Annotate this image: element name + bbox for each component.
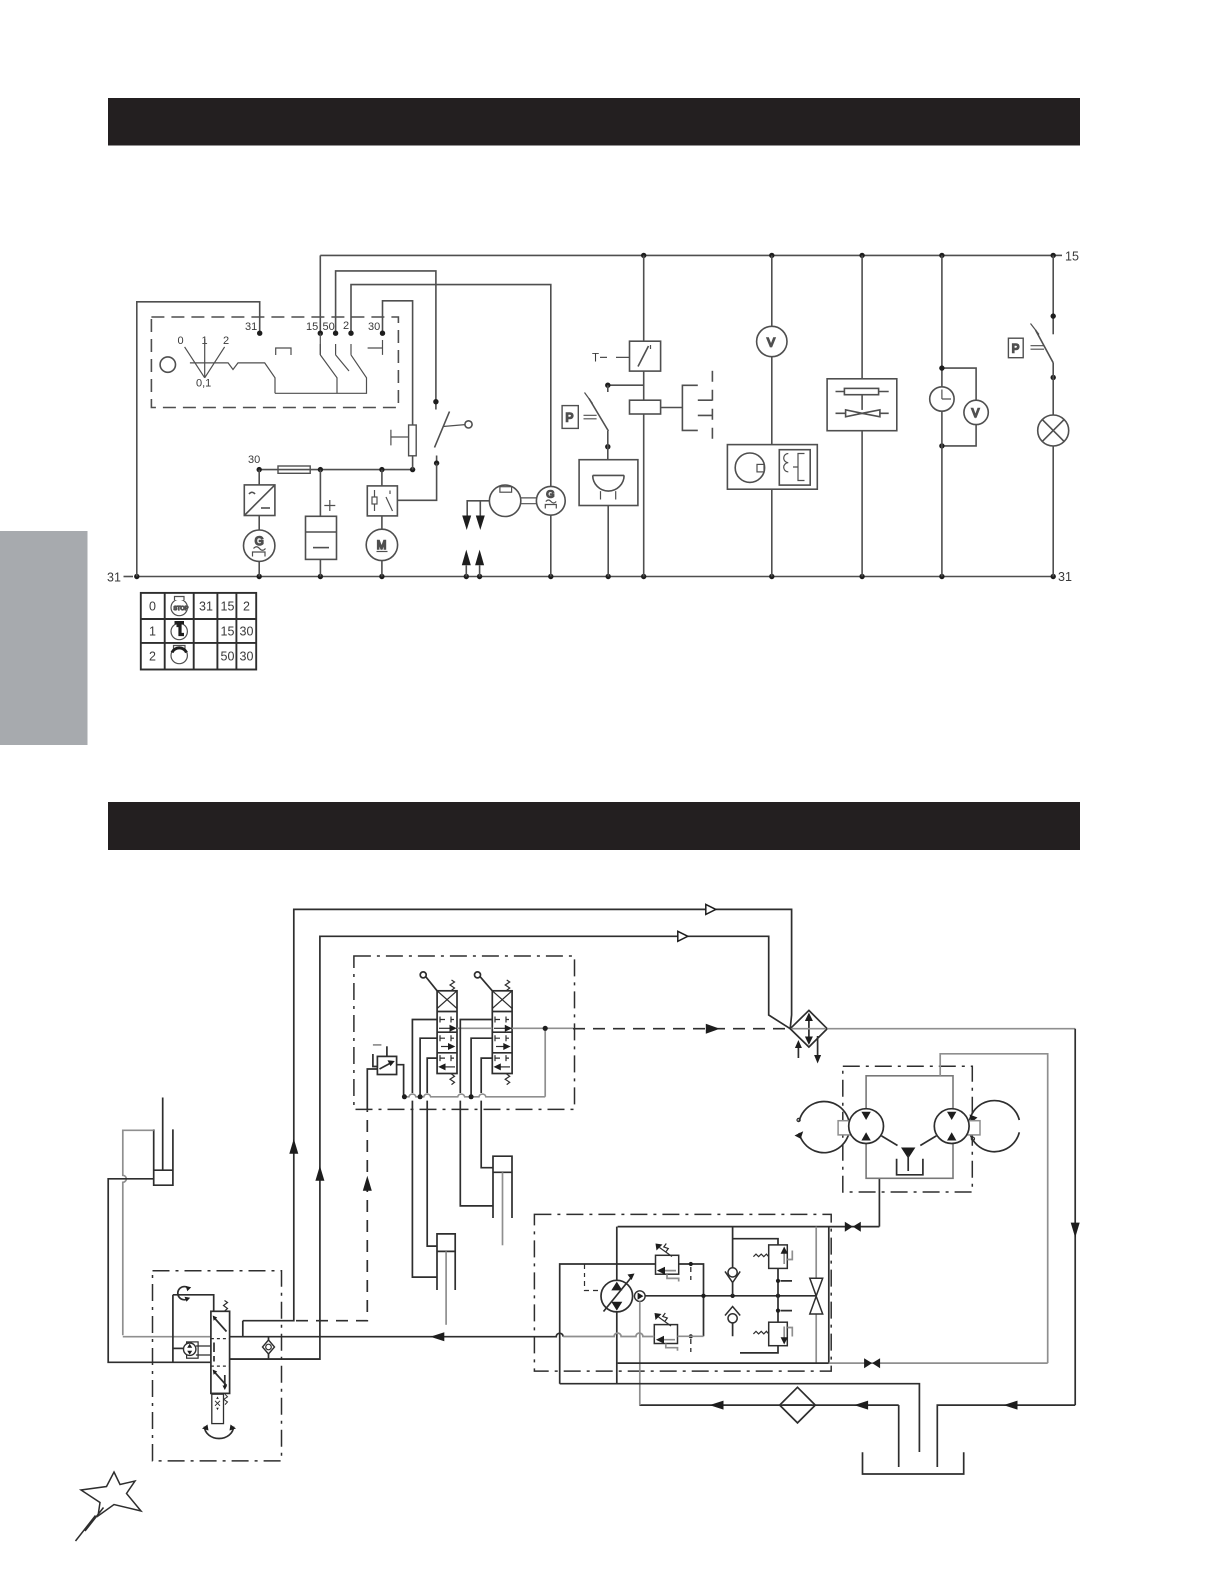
wire ignition terminal 30 to brake pedal switch: [383, 301, 413, 425]
svg-text:2: 2: [243, 600, 250, 614]
crossport valve upper: [753, 1245, 792, 1296]
charge circuit frame: [560, 1227, 829, 1384]
heater / glow plug unit E1: [827, 379, 897, 431]
wire relay K1 to starter motor M1: [381, 516, 383, 529]
wire bus 15 to oil pressure switch S5: [1052, 255, 1054, 334]
wire horn button top node to relay branch: [608, 384, 644, 386]
variable displacement pump P1: [601, 1274, 635, 1312]
lift cylinder C1 body: [437, 1234, 455, 1290]
start pushbutton node dots: [433, 399, 439, 466]
svg-text:1: 1: [149, 625, 156, 639]
wire pressure switch S5 to warning lamp H2: [1052, 363, 1054, 415]
table key icon row 0 (stop): [171, 597, 189, 616]
wire warning lamp H2 to bus 31: [1052, 446, 1054, 577]
steering valve centering spring: [224, 1301, 228, 1312]
gerotor metering section: [212, 1394, 228, 1423]
tachometer generator G3: [536, 486, 565, 515]
ignition slide contact 50: [336, 344, 349, 371]
steering cylinder C3 body: [154, 1129, 173, 1185]
gerotor drive arc: [202, 1425, 236, 1439]
svg-text:V: V: [972, 408, 980, 420]
fuse wire (30 rail): [259, 469, 412, 471]
filter internal line: [783, 1404, 812, 1406]
lift valve block enclosure (dash-dot): [354, 956, 575, 1109]
relief valve pilot lines: [367, 1046, 403, 1110]
dashed load-sense line to valve block: [296, 1110, 367, 1320]
bypass valve (bowtie): [810, 1227, 823, 1364]
wire horn H1 to bus 31: [607, 506, 609, 577]
wire connector X1 to bus 31: [466, 565, 479, 576]
valve V1 arrow heads: [438, 1025, 457, 1071]
pump port lines: [616, 1227, 618, 1384]
plug connector X2: [682, 371, 712, 446]
ignition terminal 30 stub: [368, 340, 383, 355]
valve V2 port B line: [481, 1058, 493, 1168]
valve V1 hand lever: [420, 972, 437, 991]
hour meter P3: [930, 387, 954, 411]
fuse F1: [278, 466, 310, 473]
valve V2 hand lever: [475, 972, 493, 991]
case drain line to tank: [560, 1384, 920, 1452]
svg-text:T: T: [592, 353, 599, 365]
ignition bracket contact: [276, 348, 291, 355]
ignition slide contact 2: [350, 344, 352, 355]
flushing shuttle bowtie A (filled): [845, 1222, 861, 1232]
dashed carry-over line to cooler: [573, 1028, 790, 1030]
wire generator G1 to bus 31: [258, 561, 260, 576]
svg-text:50: 50: [221, 650, 235, 664]
svg-text:15: 15: [306, 321, 318, 333]
wire fuse rail to regulator: [258, 470, 260, 485]
wire regulator to generator G1: [258, 516, 260, 531]
star logo: [76, 1472, 142, 1541]
ignition key circle: [160, 357, 175, 372]
steering cylinder base-end line: [108, 1179, 211, 1363]
wire ignition terminal 31 to bus 31: [137, 302, 260, 577]
steering line to lift valve (lower): [230, 1358, 320, 1360]
table terminal numbers: [199, 600, 253, 664]
wire temperature switch B1 to relay coil K2: [643, 371, 645, 400]
node 31 left label tick: [124, 576, 134, 578]
steering valve internal arrows: [213, 1316, 227, 1391]
wire ignition terminal 50 to start switch: [336, 271, 436, 402]
svg-text:31: 31: [1058, 570, 1072, 584]
pressure gallery node dot: [543, 1026, 548, 1031]
svg-text:2: 2: [223, 335, 229, 347]
wire generator G3 to bus 31: [550, 515, 552, 576]
valve V2 tank port line: [471, 1038, 492, 1094]
svg-text:0: 0: [178, 335, 184, 347]
wire battery to bus 31: [319, 559, 321, 576]
ignition position table frame: [141, 593, 256, 670]
table key icon row 2 (start): [171, 646, 187, 664]
metering pump in steering unit: [173, 1342, 211, 1358]
valve V1 springs: [450, 980, 455, 1085]
oil pressure switch P label box: [1008, 338, 1023, 358]
right wheel: [969, 1101, 1019, 1152]
loop return line B (gray east segment): [829, 1362, 1048, 1364]
tank return header (cooler branch): [937, 1405, 1075, 1467]
wire hour meter P3 to bus 31: [941, 411, 943, 576]
steering pressure branch riser: [242, 1321, 244, 1337]
svg-text:15: 15: [221, 625, 235, 639]
hour meter branch to voltmeter P4: [942, 368, 976, 446]
lift cylinder C2 body: [493, 1156, 512, 1218]
wire bus 15 to temperature switch B1: [643, 255, 645, 341]
relief valve pilot tick (gray): [373, 1044, 382, 1046]
pressure gallery line (gray): [457, 1028, 573, 1097]
tank return header (case drain branch): [639, 1404, 898, 1406]
steering cylinder rod-end line (gray): [123, 1130, 154, 1335]
control valve V1 body: [437, 991, 457, 1074]
control valve V2 body: [492, 991, 512, 1074]
steering valve section dividers (dashed): [211, 1339, 230, 1367]
battery G2: [306, 516, 337, 559]
starter relay K1: [367, 486, 397, 516]
wire bus 15 to voltmeter P2: [771, 255, 773, 326]
wire fuel gauge B2 to bus 31: [771, 489, 773, 576]
left wheel: [795, 1102, 850, 1153]
table key icon row 1 (run): [171, 621, 187, 640]
cooler internal through-line (gray): [792, 1028, 826, 1030]
valve V2 springs: [505, 980, 510, 1085]
tank gallery node dots: [402, 1094, 474, 1099]
valve V2 port A line: [460, 1020, 493, 1206]
ignition switch S1 enclosure (dashed): [151, 317, 398, 408]
right wheel hub: [966, 1121, 980, 1135]
page edge tab: [0, 531, 88, 745]
svg-text:2: 2: [343, 320, 349, 332]
table row position digits: [149, 600, 156, 664]
left wheel motor: [849, 1109, 884, 1144]
cooler outlet line to tank: [827, 1028, 1075, 1030]
svg-text:31: 31: [199, 600, 213, 614]
oil cooler (diamond): [790, 1010, 827, 1063]
flushing bowtie B (filled): [864, 1358, 880, 1368]
pump swash pilot (dashed): [585, 1264, 599, 1291]
arrow up on steering pressure riser: [289, 1139, 298, 1154]
svg-text:31: 31: [107, 571, 121, 585]
right wheel motor: [934, 1109, 969, 1144]
loop return line B lower: [618, 1362, 829, 1364]
valve V1 internal arrows: [439, 1017, 455, 1067]
arrow up on steering return riser: [315, 1166, 324, 1181]
steering feedback link: [172, 1295, 174, 1363]
valve V2 internal arrows: [494, 1017, 510, 1067]
fuse wire dots: [257, 467, 416, 472]
horn button S4 contact: [584, 393, 609, 432]
svg-text:50: 50: [323, 321, 335, 333]
ignition rotor lines: [185, 339, 225, 378]
steering cylinder C3 rod: [162, 1098, 164, 1171]
voltmeter P4: [964, 400, 988, 424]
motor case drain Y: [882, 1136, 937, 1175]
tank gallery line (gray): [404, 1094, 546, 1097]
steering supply line (gray) into valve: [123, 1336, 211, 1338]
oil pressure switch S5 contact: [1031, 324, 1054, 363]
wire bus 15 to hour meter P3: [941, 255, 943, 386]
wire ignition terminal 15 to bus 15: [319, 255, 321, 333]
wire fuse rail to starter relay K1: [381, 470, 383, 486]
junction dots on bus 31: [134, 574, 1056, 579]
charge relief valve upper: [656, 1244, 693, 1282]
svg-text:STOP: STOP: [174, 606, 189, 612]
wire start pushbutton to relay K1: [397, 463, 436, 500]
starter motor M1: [366, 529, 397, 560]
ignition terminal dots: [257, 331, 385, 336]
wire starter motor to bus 31: [381, 561, 383, 577]
steering column link: [173, 1295, 214, 1312]
svg-text:15: 15: [1065, 250, 1079, 264]
header bar 2 (hydraulic schematic title): [108, 802, 1080, 850]
valve V1 tank port line: [420, 1038, 437, 1094]
horn button node dots: [605, 383, 610, 450]
steering wheel input symbol: [178, 1286, 191, 1302]
block relief valve: [377, 1056, 396, 1074]
voltmeter P2: [757, 326, 787, 356]
svg-text:30: 30: [240, 650, 254, 664]
horn button S4 (P) label box: [562, 406, 578, 429]
motor return line to cooler loop: [940, 1054, 1047, 1363]
pressure line steering to cooler (top run): [243, 909, 792, 1320]
steering unit enclosure (dash-dot): [153, 1271, 282, 1461]
wire speedometer drive to connector X1: [467, 501, 489, 516]
wire pedal switch to fuse rail: [412, 456, 414, 470]
arrow left on return line: [430, 1332, 444, 1341]
svg-text:31: 31: [245, 321, 257, 333]
svg-text:30: 30: [368, 321, 380, 333]
charge pump drain (gray): [639, 1301, 641, 1405]
lift cylinder C2 rod: [502, 1172, 504, 1245]
svg-text:G: G: [546, 489, 554, 501]
svg-text:30: 30: [248, 454, 260, 466]
wire bus 15 to heater E1: [861, 255, 863, 378]
connector X1 pin arrows (top halves): [462, 516, 485, 531]
warning lamp H2: [1038, 415, 1069, 446]
wheel motor enclosure (dash-dot): [843, 1066, 973, 1192]
bus 15 (top supply rail): [320, 254, 1053, 256]
svg-text:15: 15: [221, 600, 235, 614]
charge gallery node dots: [701, 1294, 780, 1298]
wire heater E1 to bus 31: [861, 431, 863, 577]
steering control valve body: [211, 1311, 230, 1393]
valve V1 port A line: [412, 1020, 437, 1278]
arrow up on dashed riser: [363, 1176, 372, 1191]
hydrostatic pump enclosure (dash-dot): [534, 1214, 831, 1371]
svg-text:2: 2: [149, 650, 156, 664]
open arrow on second top run: [678, 931, 688, 941]
node 15 label tick: [1053, 254, 1062, 256]
arrow on dashed carry-over line: [706, 1024, 720, 1034]
battery G2 plus sign: [324, 500, 335, 511]
voltage regulator U1: [244, 485, 275, 516]
suction filter (diamond on return header): [780, 1387, 816, 1423]
relay coil K2: [630, 400, 661, 414]
wire horn button to horn H1: [607, 385, 609, 460]
ignition bottom contact bar: [275, 355, 367, 393]
lift cylinder C1 rod: [445, 1251, 447, 1324]
crossport valve lower: [740, 1296, 792, 1353]
shuttle connection upper: [733, 1239, 778, 1245]
wire fuse rail to battery: [319, 470, 321, 517]
temperature switch B1: [630, 341, 661, 371]
branch node dots: [939, 365, 944, 448]
wire voltmeter P2 to fuel gauge B2: [771, 357, 773, 445]
header bar 1 (electrical schematic title): [108, 98, 1080, 146]
charge pump: [635, 1291, 646, 1302]
wheel motor loop frame: [866, 1076, 953, 1179]
wire relay coil K2 to bus 31: [643, 414, 645, 577]
oil pressure switch node dots: [1051, 313, 1056, 380]
ignition contact bar with detent: [190, 363, 275, 393]
valve V1 port B line: [427, 1058, 437, 1246]
svg-text:30: 30: [240, 625, 254, 639]
tank T1: [863, 1452, 964, 1474]
brake pedal interlock switch S3: [391, 425, 416, 456]
open arrow on top run: [706, 904, 716, 914]
valve V2 arrow heads: [494, 1025, 513, 1071]
generator G1 (charging alternator): [244, 530, 275, 561]
speedometer P1: [489, 485, 520, 516]
wire ignition terminal 2 to generator G3: [351, 285, 551, 487]
arrows left on tank return header: [1004, 1401, 1018, 1410]
left wheel hub: [838, 1121, 852, 1135]
svg-text:0: 0: [149, 600, 156, 614]
connector X1 pin arrows (bottom halves): [462, 550, 484, 566]
drive shaft coupling: [521, 498, 537, 504]
return line steering (second top run): [230, 936, 791, 1359]
svg-text:M: M: [377, 540, 387, 552]
bus 31 (bottom ground rail): [137, 576, 1054, 578]
steering valve return port line east: [230, 1333, 564, 1337]
svg-text:P: P: [566, 411, 574, 425]
svg-text:V: V: [767, 336, 775, 350]
pump high pressure line A: [618, 1226, 880, 1228]
horn H1: [579, 460, 638, 506]
svg-text:P: P: [1012, 344, 1020, 356]
start pushbutton S2: [435, 402, 473, 463]
junction dots on bus 15: [641, 253, 1056, 258]
charge gallery line: [645, 1295, 816, 1297]
charge supply line (gray) into block: [563, 1333, 703, 1337]
motor feed riser: [878, 1178, 880, 1226]
fuel gauge and sender B2: [727, 445, 817, 490]
check valve in steering unit: [263, 1337, 275, 1359]
svg-text:0,1: 0,1: [196, 378, 211, 390]
wire relay coil K2 to plug X2: [661, 407, 683, 409]
charge check valves column: [725, 1227, 740, 1337]
arrow down on cooler outlet drop: [1071, 1223, 1080, 1238]
ignition slide contact 15: [320, 333, 337, 393]
charge relief valve lower: [654, 1313, 693, 1352]
